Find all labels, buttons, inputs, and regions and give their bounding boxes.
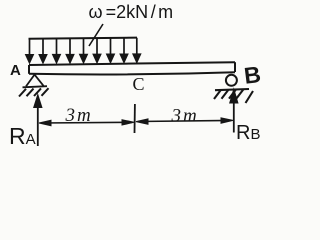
svg-text:RB: RB <box>236 122 260 144</box>
dimension line A to mid <box>39 120 134 126</box>
roller support at B <box>226 75 237 86</box>
load arrow 2 <box>40 39 47 63</box>
leader line from label to load <box>89 24 103 46</box>
reaction arrow RA <box>34 95 42 147</box>
svg-text:3m: 3m <box>65 105 93 126</box>
svg-text:B: B <box>243 61 263 89</box>
dimension line mid to B <box>136 118 233 124</box>
pin support at A <box>23 75 48 88</box>
beam <box>29 62 235 74</box>
load arrow 9 <box>133 38 140 62</box>
load arrow 6 <box>94 38 101 62</box>
distributed load arrows <box>26 38 140 63</box>
svg-text:RA: RA <box>9 123 36 149</box>
load arrow 5 <box>80 39 87 63</box>
mid tick <box>134 104 136 133</box>
hatching under B <box>214 89 253 103</box>
svg-text:3m: 3m <box>171 106 199 127</box>
load arrow 4 <box>67 39 74 63</box>
distributed load top line <box>29 38 138 39</box>
load arrow 8 <box>121 38 128 62</box>
hatching under A <box>19 88 49 96</box>
load arrow 1 <box>26 39 33 63</box>
svg-text:ω=2kN/m: ω=2kN/m <box>89 2 174 22</box>
load arrow 3 <box>53 39 60 63</box>
svg-text:C: C <box>133 74 145 94</box>
load arrow 7 <box>107 38 114 62</box>
reaction arrow RB <box>230 89 238 133</box>
svg-text:A: A <box>10 62 21 79</box>
